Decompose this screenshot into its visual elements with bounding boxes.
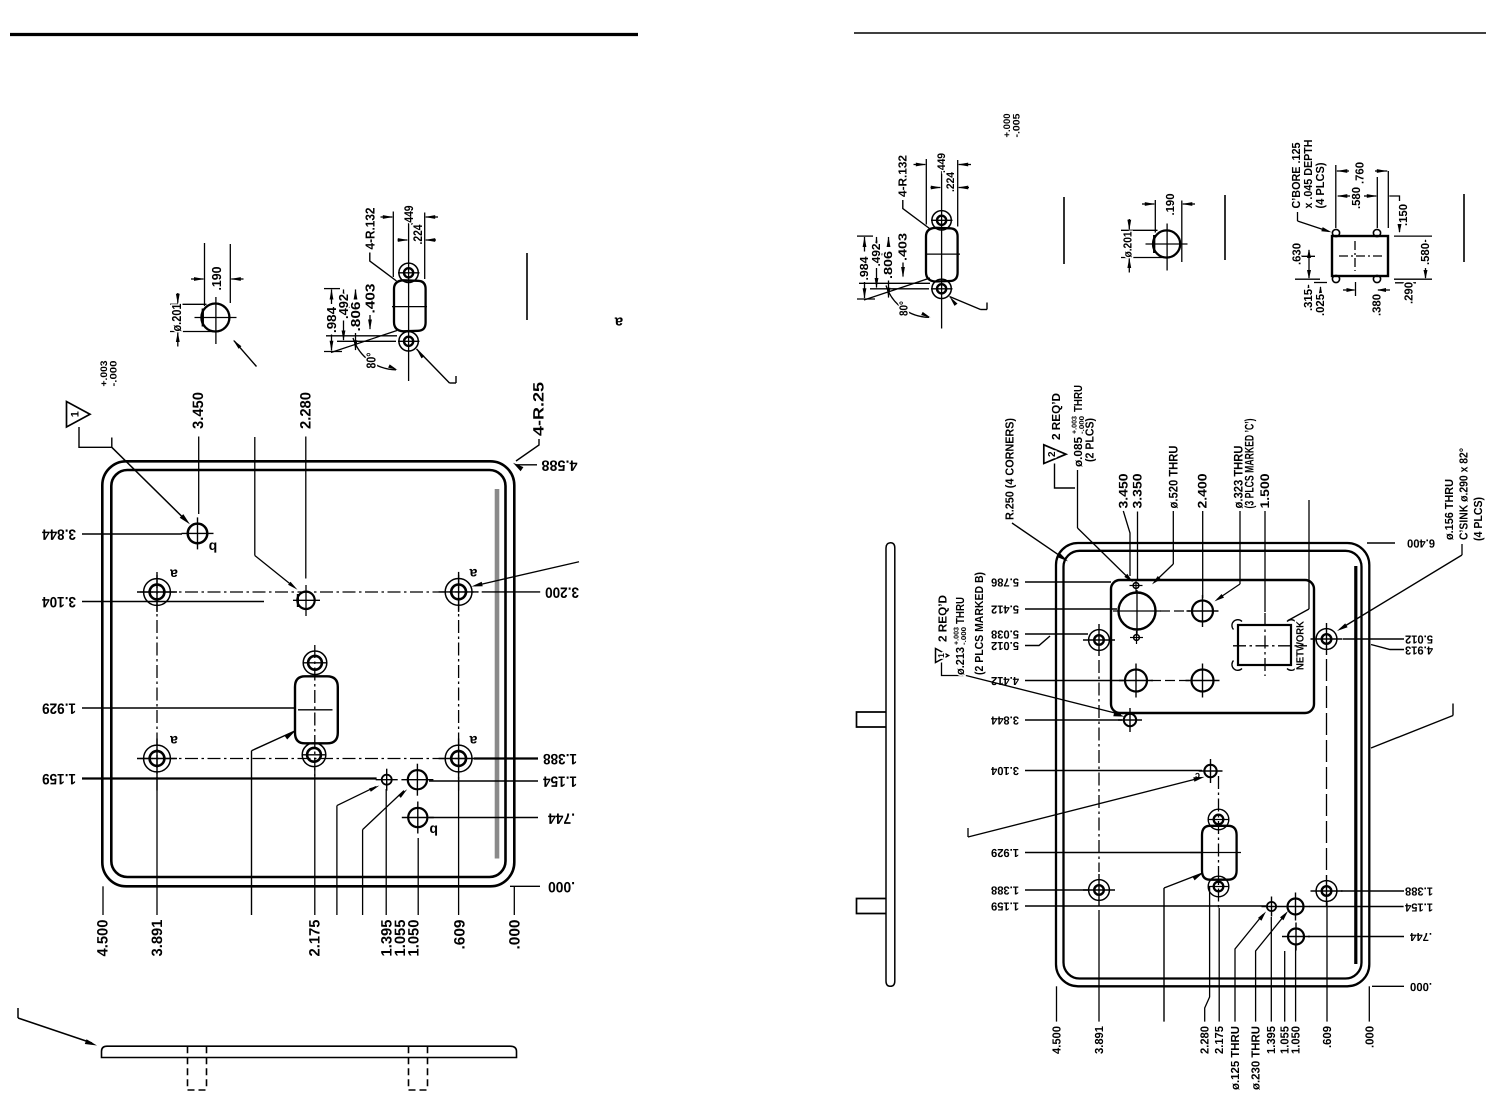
- svg-text:3.104: 3.104: [41, 593, 76, 610]
- centreline column right left plate: [458, 575, 460, 791]
- dimension .190 left detail: [191, 243, 244, 306]
- right side label .000: [1372, 980, 1432, 993]
- svg-text:3.104: 3.104: [991, 764, 1019, 777]
- note CBORE .125 x .045 DEPTH 4 PLCS: [1290, 140, 1332, 233]
- dogleg leader phi.125 right page: [1235, 912, 1266, 1022]
- side view plate right page: [886, 543, 895, 987]
- dimension 3.104 left side right page: [991, 764, 1202, 777]
- dimension 3.450 top left page: [190, 392, 207, 514]
- hole phi.230 right plate: [1282, 893, 1310, 921]
- dimension .630 counterbore detail: [1291, 243, 1321, 280]
- bottom dimension labels left page: [95, 920, 524, 957]
- label a top-right hole: [469, 566, 477, 582]
- note phi.156 THRU CSINK: [1337, 448, 1485, 631]
- hole phi.323 top right of pocket: [1187, 595, 1219, 627]
- left page top rule: [10, 33, 638, 36]
- dimension .744 right side: [429, 810, 575, 827]
- separator line right page first: [1063, 197, 1065, 264]
- svg-text:.380: .380: [1371, 294, 1384, 316]
- svg-text:.760: .760: [1354, 162, 1367, 184]
- svg-text:-.000: -.000: [108, 361, 119, 387]
- leader with end bracket lower screw left detail: [417, 349, 457, 383]
- svg-text:a: a: [170, 567, 178, 583]
- detail D-sub lower screw hole: [398, 332, 420, 351]
- svg-text:80°: 80°: [364, 353, 379, 369]
- dogleg leader to hole 1.055 from bottom: [363, 789, 408, 915]
- bottom extension line 2.175: [314, 768, 316, 915]
- dimension 2.280 top left page: [297, 392, 314, 579]
- svg-text:5.012: 5.012: [991, 639, 1019, 652]
- svg-text:3.891: 3.891: [149, 920, 166, 957]
- svg-text:3.844: 3.844: [41, 526, 76, 543]
- right plate outer outline: [1056, 543, 1369, 986]
- svg-text:a: a: [469, 566, 477, 582]
- long shallow leader to hole 3.104: [968, 777, 1205, 837]
- dimension .224 right detail: [931, 171, 970, 192]
- svg-text:1.929: 1.929: [991, 846, 1019, 859]
- recessed pocket outline right plate: [1111, 580, 1314, 713]
- counterbore corner circles: [1332, 229, 1380, 282]
- dimension .403 left detail: [363, 284, 378, 331]
- hole 1.050 right plate: [1282, 923, 1310, 951]
- svg-text:THRU: THRU: [954, 597, 967, 624]
- svg-text:5.412: 5.412: [991, 603, 1019, 616]
- svg-text:1.159: 1.159: [991, 900, 1019, 913]
- svg-text:3.200: 3.200: [545, 583, 579, 600]
- svg-text:ø.125 THRU: ø.125 THRU: [1229, 1026, 1242, 1090]
- side view plate left page: [102, 1046, 517, 1057]
- dimension .449 left detail: [381, 205, 439, 279]
- svg-text:.290: .290: [1403, 282, 1416, 304]
- label a bottom-left hole: [170, 733, 178, 749]
- svg-text:a: a: [170, 733, 178, 749]
- svg-text:1.388: 1.388: [1405, 885, 1433, 898]
- dimension 5.412 left side right page: [991, 603, 1117, 616]
- svg-text:2.400: 2.400: [1196, 473, 1210, 508]
- angle 80 degrees left detail: [326, 331, 398, 371]
- main D-sub cutout left plate: [295, 676, 338, 743]
- svg-text:.403: .403: [363, 284, 378, 314]
- svg-text:4-R.132: 4-R.132: [362, 208, 377, 250]
- note 4-R.25 with leader: [513, 382, 548, 471]
- detail D-sub centrelines: [344, 211, 427, 381]
- centreline column left left plate: [156, 575, 158, 791]
- centreline row lower left plate: [140, 758, 478, 760]
- svg-text:.150: .150: [1397, 204, 1410, 226]
- dimension line 1.159 left side: [42, 770, 377, 787]
- detail hole phi.201 left page: [195, 297, 237, 344]
- svg-text:ø.520 THRU: ø.520 THRU: [1166, 446, 1180, 509]
- countersunk hole top-left right plate: [1083, 624, 1115, 656]
- svg-text:.609: .609: [452, 920, 469, 950]
- svg-text:b: b: [209, 540, 218, 556]
- svg-text:1.154: 1.154: [542, 773, 577, 790]
- dimension .380 counterbore detail: [1343, 282, 1390, 316]
- svg-text:+.003: +.003: [954, 627, 961, 645]
- svg-text:-.005: -.005: [1011, 113, 1022, 138]
- hole 3.844 right plate: [1118, 708, 1142, 732]
- hole 2.280 right plate: [1199, 759, 1223, 783]
- svg-text:4.913: 4.913: [1405, 644, 1433, 657]
- dimension 5.012 left side right page: [991, 636, 1050, 652]
- svg-text:.000: .000: [1410, 980, 1432, 993]
- note phi.085 THRU 2 PLCS: [1072, 385, 1134, 582]
- hole b top left plate: [182, 517, 214, 549]
- detail counterbore pattern rectangle: [1332, 236, 1388, 276]
- svg-text:ø.213: ø.213: [954, 647, 967, 675]
- right side label .744: [1308, 930, 1432, 943]
- svg-text:ø.201: ø.201: [169, 304, 184, 332]
- bottom extension line 3.891: [156, 777, 158, 915]
- hole phi.323 bottom-left of pocket: [1119, 664, 1153, 698]
- counterbore detail centrelines: [1339, 241, 1382, 271]
- detail D-sub upper screw hole: [398, 263, 420, 282]
- dimension 3.450 top right page: [1116, 473, 1130, 576]
- dogleg leader to centre hole left page: [255, 437, 298, 590]
- countersunk hole bottom-left right plate: [1083, 874, 1115, 906]
- centreline column left right plate: [1098, 660, 1100, 872]
- tolerance note +.003 -.000: [99, 361, 119, 387]
- svg-text:.806: .806: [882, 250, 895, 279]
- dimension .449 right detail: [914, 153, 972, 227]
- svg-text:3.450: 3.450: [1116, 473, 1130, 508]
- svg-text:.744: .744: [547, 810, 575, 827]
- tolerance note right page: [1002, 113, 1022, 138]
- main D-sub lower screw left plate: [302, 743, 326, 767]
- right side label 1.388: [1341, 885, 1433, 898]
- hole b .744 left plate: [402, 802, 434, 834]
- svg-text:.630: .630: [1291, 243, 1304, 265]
- svg-text:C’SINK ø.290 x 82°: C’SINK ø.290 x 82°: [1458, 448, 1471, 540]
- svg-text:3.844: 3.844: [991, 714, 1019, 727]
- svg-text:2.280: 2.280: [297, 392, 314, 429]
- svg-text:4.500: 4.500: [1051, 1026, 1064, 1054]
- svg-text:1.929: 1.929: [42, 700, 76, 717]
- svg-text:3.450: 3.450: [190, 392, 207, 429]
- svg-text:5.786: 5.786: [991, 576, 1019, 589]
- note 4-R.132 right detail: [896, 155, 929, 229]
- dimension .000 right side: [510, 878, 575, 895]
- square cutout corner relief arcs: [1232, 620, 1297, 671]
- svg-text:.580: .580: [1350, 187, 1363, 209]
- centreline column right right plate: [1326, 659, 1328, 873]
- dimension 5.038 left side right page: [991, 628, 1088, 641]
- note phi.520 THRU: [1152, 446, 1180, 585]
- dimension .580 top counterbore detail: [1337, 177, 1378, 228]
- detail hole phi.201 right page: [1146, 224, 1188, 271]
- main D-sub upper screw right plate: [1208, 809, 1229, 830]
- svg-text:.744: .744: [1410, 930, 1432, 943]
- svg-text:2 REQ’D: 2 REQ’D: [937, 595, 950, 642]
- note 4-R.132 left detail: [362, 208, 396, 282]
- svg-text:2.175: 2.175: [1213, 1026, 1226, 1054]
- dimension .315 counterbore detail: [1302, 284, 1315, 311]
- detail D-sub connector left page body: [394, 280, 426, 331]
- flag triangle 2 with note: [1044, 393, 1075, 488]
- side view upper tab right page: [857, 712, 887, 727]
- main D-sub lower screw right plate: [1208, 876, 1229, 897]
- dimension 4.588 right of plate: [516, 456, 578, 473]
- leader to D-sub corner right plate: [1164, 873, 1203, 1022]
- label a top-left hole: [170, 567, 178, 583]
- dimension .806 right detail: [870, 237, 929, 299]
- svg-text:.449: .449: [402, 205, 416, 225]
- right page top rule: [854, 32, 1486, 34]
- svg-text:.403: .403: [897, 232, 910, 261]
- hole phi.323 bottom-right of pocket: [1186, 664, 1220, 698]
- svg-text:.580: .580: [1419, 243, 1432, 265]
- svg-text:3.350: 3.350: [1130, 473, 1144, 508]
- detail D-sub lower screw right page: [931, 279, 953, 298]
- svg-text:ø.156 THRU: ø.156 THRU: [1443, 479, 1456, 540]
- svg-text:.224: .224: [945, 171, 957, 192]
- small hole phi.085 upper: [1130, 579, 1143, 592]
- svg-text:2 REQ’D: 2 REQ’D: [1050, 393, 1063, 440]
- main D-sub cutout right plate: [1202, 826, 1237, 880]
- svg-text:.609: .609: [1321, 1026, 1334, 1048]
- dash centreline between pocket holes bottom: [1151, 680, 1189, 682]
- dash centreline between pocket holes top: [1160, 610, 1190, 612]
- svg-text:.000: .000: [507, 920, 524, 950]
- svg-text:80°: 80°: [898, 301, 911, 316]
- dimension .492 right detail: [870, 237, 883, 289]
- separator line right page third: [1463, 194, 1465, 262]
- dimension 3.104 left side: [41, 593, 264, 610]
- svg-text:1.395: 1.395: [1265, 1026, 1278, 1054]
- svg-text:.190: .190: [209, 267, 224, 291]
- grey gasket bar left plate: [495, 489, 500, 859]
- svg-text:4.500: 4.500: [95, 920, 112, 957]
- side view lower tab right page: [857, 899, 887, 914]
- svg-text:1.500: 1.500: [1258, 473, 1272, 508]
- svg-text:3.891: 3.891: [1093, 1026, 1106, 1054]
- svg-text:1.388: 1.388: [543, 750, 577, 767]
- leader to D-sub corner with dogleg left plate: [252, 731, 296, 915]
- svg-text:a: a: [614, 314, 623, 331]
- dimension .806 left detail: [337, 289, 396, 351]
- svg-text:1.154: 1.154: [1405, 901, 1433, 914]
- dimension 3.350 top right page: [1130, 473, 1144, 579]
- dimension 1.154 right side: [429, 773, 577, 790]
- edge leader with stub right plate: [1371, 704, 1453, 749]
- bottom extension line .609: [458, 777, 460, 915]
- svg-text:(4 PLCS): (4 PLCS): [1472, 497, 1485, 541]
- note R.250 4 CORNERS: [1004, 418, 1069, 561]
- small hole phi.125 right plate: [1262, 897, 1282, 917]
- dimension .290 counterbore detail: [1395, 282, 1416, 304]
- flag triangle 1 note right page: [936, 572, 1125, 717]
- svg-text:4-R.25: 4-R.25: [531, 382, 548, 436]
- dimension phi.201 right detail: [1121, 219, 1168, 273]
- centreline row upper left plate: [140, 591, 478, 593]
- bottom extension line 4.500: [102, 886, 104, 915]
- dimension 4.412 left side right page: [991, 674, 1124, 687]
- label a bottom-right hole: [469, 733, 477, 749]
- leader with end bracket lower screw right detail: [950, 297, 988, 310]
- label b lower hole: [429, 823, 438, 839]
- dimension 1.388 right side: [474, 750, 577, 767]
- svg-text:1: 1: [936, 653, 946, 658]
- side view right stud dashed: [409, 1046, 428, 1090]
- svg-text:5.038: 5.038: [991, 628, 1019, 641]
- dimension 1.500 top right page: [1258, 473, 1272, 612]
- detail D-sub upper screw right page: [931, 211, 953, 230]
- svg-text:1.050: 1.050: [1290, 1026, 1303, 1054]
- dogleg leader to small hole from bottom: [337, 786, 380, 916]
- svg-text:(2 PLCS): (2 PLCS): [1084, 418, 1097, 462]
- dimension .025 counterbore detail: [1314, 283, 1327, 317]
- svg-text:(2 PLCS MARKED B): (2 PLCS MARKED B): [973, 572, 986, 675]
- countersunk hole top-right right plate: [1311, 623, 1343, 655]
- countersunk hole a top-right: [439, 572, 479, 612]
- svg-text:.025: .025: [1314, 294, 1327, 316]
- centre hole 2.280 left plate: [293, 585, 320, 616]
- hole 1.154 left plate: [401, 764, 433, 796]
- svg-text:b: b: [429, 823, 438, 839]
- large hole phi.520 right plate: [1113, 590, 1161, 634]
- detail D-sub connector right page body: [926, 228, 958, 282]
- countersunk hole bottom-right right plate: [1311, 875, 1343, 907]
- dimension .190 right detail: [1142, 193, 1195, 262]
- svg-text:6.400: 6.400: [1407, 537, 1435, 550]
- angle 80 degrees right detail: [859, 278, 931, 318]
- svg-text:2: 2: [1047, 451, 1058, 457]
- dimension 3.844 left side right page: [991, 714, 1122, 727]
- dimension 2.400 top right page: [1196, 473, 1210, 598]
- svg-text:.000: .000: [548, 878, 575, 895]
- right side label 1.154: [1309, 901, 1433, 914]
- side view left stud dashed: [188, 1046, 207, 1090]
- bottom extension line 1.050: [417, 838, 419, 915]
- dimension .403 right detail: [897, 232, 910, 277]
- left plate outer outline: [102, 461, 514, 886]
- svg-text:1.050: 1.050: [406, 920, 423, 957]
- dimension 1.929 left side right page: [991, 846, 1201, 859]
- floating leader to hole a top-right: [472, 562, 580, 587]
- separator line right page second: [1224, 195, 1226, 260]
- dimension .224 left detail: [398, 224, 437, 244]
- svg-text:1.388: 1.388: [991, 884, 1019, 897]
- bottom extension lines right page: [1057, 886, 1370, 1022]
- dogleg leader phi.230 right page: [1256, 911, 1288, 1022]
- svg-text:1: 1: [70, 411, 82, 417]
- label NETWORK: [1295, 621, 1307, 670]
- black strip right plate: [1354, 566, 1357, 964]
- leader arrow to phi.201 hole: [233, 340, 257, 367]
- svg-text:a: a: [469, 733, 477, 749]
- svg-text:.224: .224: [411, 224, 425, 244]
- svg-text:.806: .806: [348, 302, 363, 332]
- svg-text:-.000: -.000: [961, 627, 968, 645]
- svg-text:2.280: 2.280: [1199, 1026, 1212, 1054]
- svg-text:THRU: THRU: [1072, 385, 1085, 412]
- dimension .984 left detail: [324, 289, 342, 352]
- main D-sub centrelines left plate: [298, 645, 333, 776]
- left side labels right page: [991, 576, 1111, 589]
- square cutout NETWORK: [1238, 625, 1291, 665]
- dimension 3.844 left side: [41, 526, 182, 543]
- svg-text:.449: .449: [936, 153, 948, 173]
- dimension 1.159 left side right page: [991, 900, 1266, 913]
- label c mark near hole: [1195, 771, 1200, 781]
- detail D-sub centrelines right page: [877, 159, 960, 329]
- svg-text:(3 PLCS MARKED ’C’): (3 PLCS MARKED ’C’): [1243, 419, 1257, 509]
- left plate inner offset outline: [111, 470, 505, 877]
- dimension 1.929 left side: [42, 700, 294, 717]
- bottom dimension labels right page: [1051, 1026, 1377, 1090]
- svg-text:(4 PLCS): (4 PLCS): [1314, 162, 1327, 208]
- svg-text:.000: .000: [1364, 1026, 1377, 1048]
- svg-text:2.175: 2.175: [307, 920, 324, 957]
- bottom extension line 1.395: [385, 789, 387, 915]
- countersunk hole a top-left: [137, 572, 177, 612]
- svg-text:+.003: +.003: [1072, 416, 1079, 434]
- dimension .492 left detail: [336, 289, 351, 341]
- right side labels right page 5.012: [1343, 633, 1433, 646]
- right plate inner offset outline: [1064, 551, 1362, 979]
- svg-text:4-R.132: 4-R.132: [896, 155, 909, 197]
- note phi.323 THRU 3 PLCS MARKED C: [1215, 419, 1257, 602]
- svg-text:.190: .190: [1164, 193, 1177, 215]
- svg-text:1.159: 1.159: [42, 770, 76, 787]
- countersunk hole a bottom-left: [137, 739, 177, 779]
- svg-text:4.588: 4.588: [542, 456, 578, 473]
- dimension 3.200 right side: [482, 583, 579, 600]
- note letter a left page: [614, 314, 623, 331]
- dimension .984 right detail: [857, 236, 875, 299]
- separator line left page: [526, 253, 528, 320]
- small hole phi.085 lower: [1130, 631, 1143, 644]
- svg-text:ø.230 THRU: ø.230 THRU: [1250, 1026, 1263, 1090]
- side view leader arrow: [18, 1008, 97, 1046]
- dimension 6.400 right page: [1367, 537, 1435, 550]
- square cutout centrelines: [1233, 613, 1307, 676]
- leader to square cutout corner: [1288, 500, 1309, 621]
- svg-text:ø.201: ø.201: [1122, 231, 1135, 257]
- dimension .760 counterbore detail: [1336, 162, 1389, 228]
- main D-sub upper screw left plate: [303, 651, 327, 675]
- label b top hole: [209, 540, 218, 556]
- dimension .580 right counterbore detail: [1394, 236, 1432, 279]
- flag triangle 1 with leader to hole b: [67, 402, 191, 525]
- svg-text:R.250 (4 CORNERS): R.250 (4 CORNERS): [1004, 418, 1017, 520]
- bottom extension line .000: [513, 886, 515, 915]
- dimension .150 counterbore detail: [1389, 196, 1410, 233]
- small hole cross 1.395 left plate: [376, 769, 398, 791]
- dimension phi.201 left detail: [169, 293, 217, 347]
- countersunk hole a bottom-right: [439, 739, 479, 779]
- right side label 4.913: [1371, 644, 1433, 657]
- dimension 1.388 left side right page: [991, 884, 1088, 897]
- main D-sub centrelines right plate: [1190, 776, 1241, 908]
